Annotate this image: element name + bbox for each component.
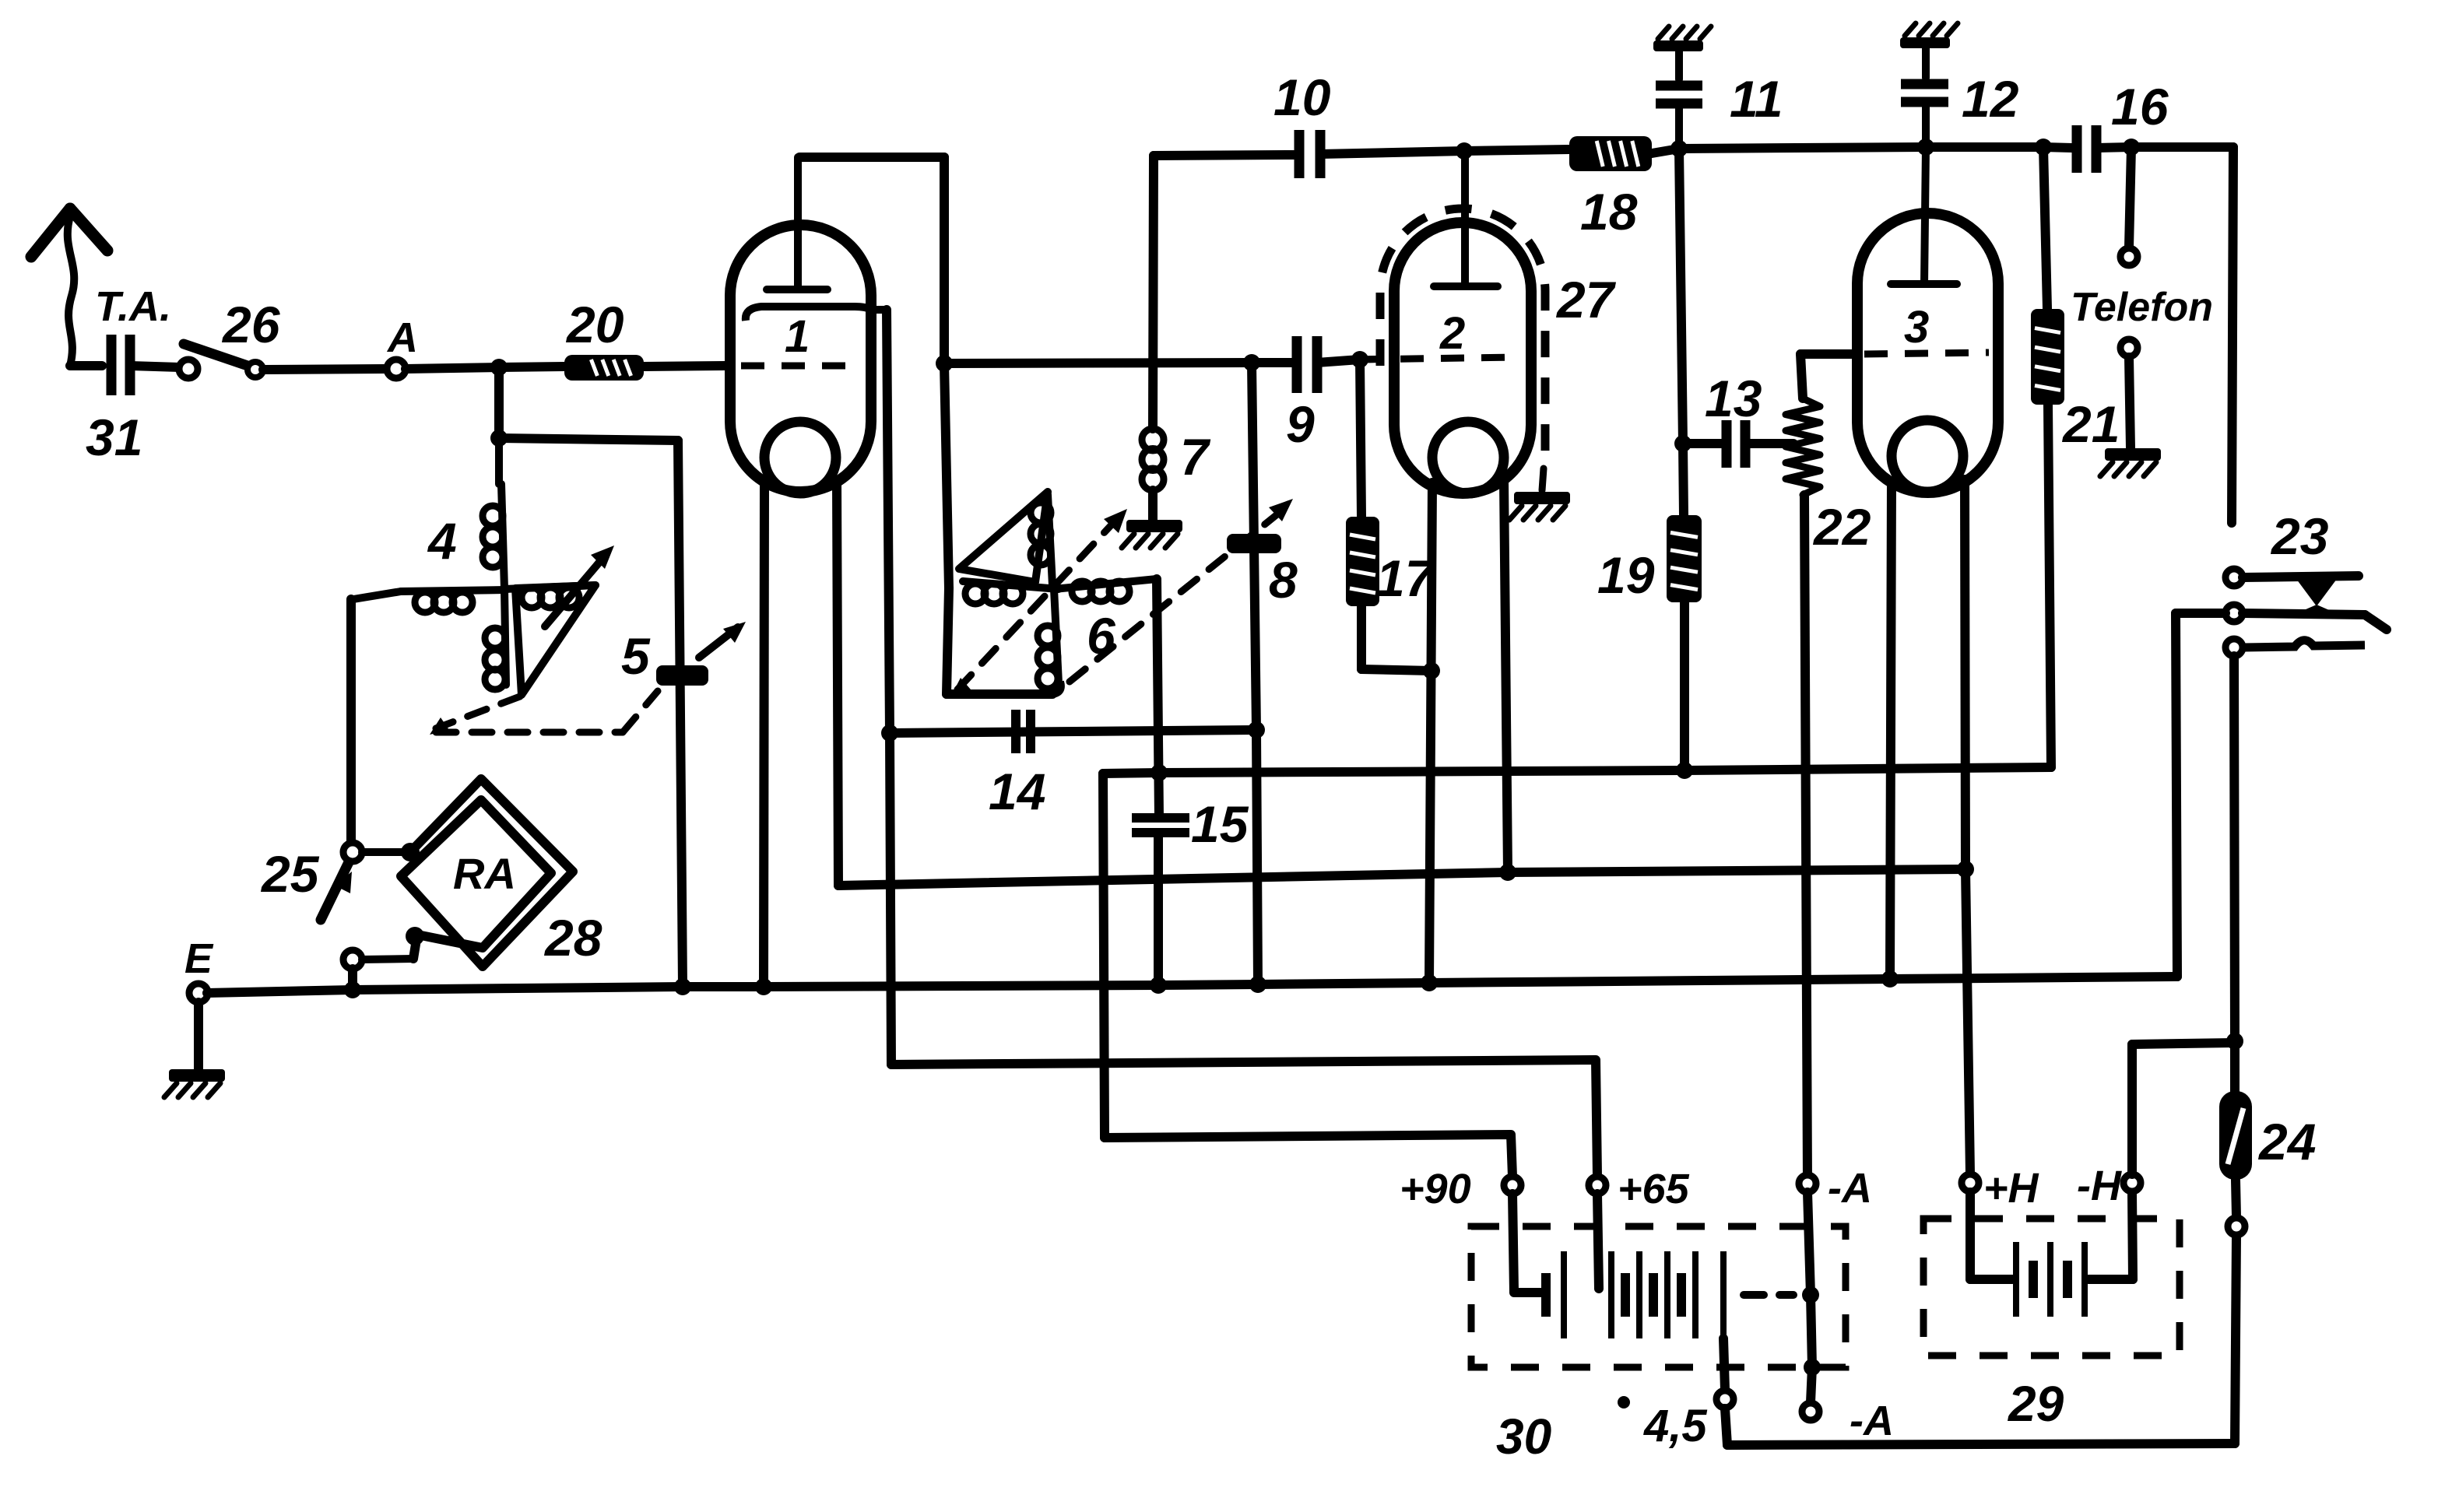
svg-text:1: 1 bbox=[785, 311, 810, 362]
svg-text:+90: +90 bbox=[1400, 1166, 1471, 1212]
svg-text:7: 7 bbox=[1180, 428, 1211, 486]
svg-text:25: 25 bbox=[260, 845, 320, 903]
svg-text:31: 31 bbox=[86, 409, 142, 466]
svg-text:6: 6 bbox=[1087, 607, 1116, 665]
svg-text:-H: -H bbox=[2077, 1163, 2122, 1209]
svg-text:9: 9 bbox=[1286, 395, 1315, 453]
svg-text:3: 3 bbox=[1904, 302, 1929, 353]
svg-text:29: 29 bbox=[2008, 1376, 2064, 1432]
svg-text:19: 19 bbox=[1597, 546, 1655, 604]
svg-text:E: E bbox=[184, 935, 214, 982]
svg-text:26: 26 bbox=[221, 296, 281, 353]
svg-text:2: 2 bbox=[1439, 308, 1465, 359]
svg-text:24: 24 bbox=[2257, 1113, 2316, 1170]
svg-text:-A: -A bbox=[1850, 1398, 1894, 1444]
svg-text:30: 30 bbox=[1496, 1409, 1551, 1465]
svg-text:4,5: 4,5 bbox=[1643, 1401, 1707, 1451]
svg-text:16: 16 bbox=[2111, 78, 2169, 135]
svg-text:10: 10 bbox=[1273, 68, 1331, 126]
svg-text:Telefon: Telefon bbox=[2071, 285, 2213, 330]
svg-text:20: 20 bbox=[565, 296, 624, 353]
svg-text:5: 5 bbox=[621, 627, 651, 685]
svg-text:A: A bbox=[386, 314, 418, 361]
svg-text:11: 11 bbox=[1730, 70, 1783, 128]
svg-text:18: 18 bbox=[1580, 183, 1638, 240]
svg-text:23: 23 bbox=[2270, 507, 2328, 565]
svg-text:-A: -A bbox=[1828, 1165, 1872, 1212]
svg-text:+65: +65 bbox=[1618, 1166, 1690, 1212]
svg-text:12: 12 bbox=[1962, 70, 2019, 128]
svg-text:15: 15 bbox=[1191, 795, 1249, 853]
svg-text:4: 4 bbox=[427, 512, 457, 570]
svg-text:28: 28 bbox=[543, 909, 602, 966]
svg-text:14: 14 bbox=[989, 763, 1045, 820]
svg-text:T.A.: T.A. bbox=[95, 283, 171, 330]
svg-text:13: 13 bbox=[1705, 370, 1762, 427]
svg-text:+H: +H bbox=[1983, 1165, 2039, 1212]
svg-text:27: 27 bbox=[1555, 271, 1617, 328]
svg-text:17: 17 bbox=[1376, 549, 1436, 607]
svg-text:RA: RA bbox=[453, 849, 516, 898]
svg-text:8: 8 bbox=[1269, 551, 1298, 609]
svg-text:22: 22 bbox=[1812, 498, 1871, 556]
svg-text:21: 21 bbox=[2061, 395, 2120, 453]
